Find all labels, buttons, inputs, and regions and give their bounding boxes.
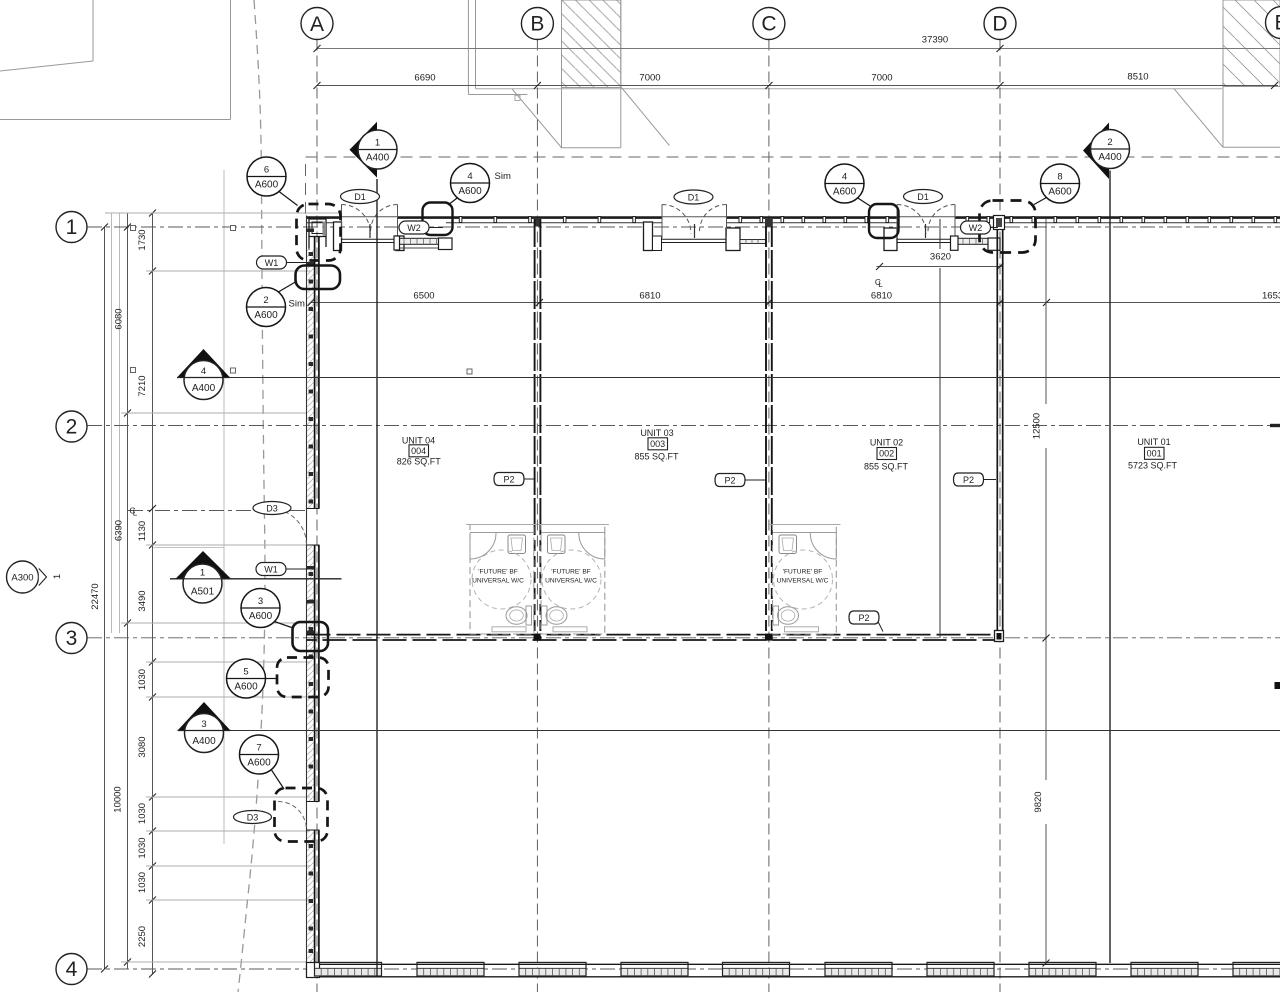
- svg-text:2: 2: [66, 416, 78, 439]
- WC room 2 door swing: [579, 533, 605, 559]
- svg-text:002: 002: [879, 449, 894, 459]
- grid bubble 2: [56, 411, 87, 442]
- svg-text:P2: P2: [724, 476, 735, 486]
- svg-text:A400: A400: [192, 383, 216, 394]
- grid bubble E clipped: [1266, 7, 1280, 39]
- grid line 2: [87, 425, 1280, 427]
- svg-text:1030: 1030: [137, 872, 148, 893]
- WC room 1 toilet: [506, 607, 527, 625]
- svg-text:A600: A600: [249, 611, 273, 622]
- window W2-2 sill: [951, 236, 1001, 250]
- svg-text:9820: 9820: [1033, 791, 1044, 812]
- property line dashed curve: [238, 0, 265, 992]
- callout 4/A600 Sim: [448, 164, 511, 206]
- svg-text:3490: 3490: [137, 590, 148, 611]
- NW corner column boxes: [309, 219, 326, 250]
- callout 4/A600: [825, 164, 871, 207]
- grid line 4: [87, 968, 1280, 970]
- svg-text:1: 1: [66, 216, 78, 239]
- svg-text:7: 7: [256, 743, 261, 754]
- svg-text:7000: 7000: [871, 73, 892, 84]
- wall B junction box: [534, 219, 541, 227]
- svg-text:6690: 6690: [414, 73, 435, 84]
- svg-text:D: D: [992, 13, 1007, 36]
- window W2-1 sill: [394, 236, 452, 250]
- svg-text:2250: 2250: [137, 926, 148, 947]
- detail boundary W2-1 solid: [423, 203, 453, 236]
- detail boundary 7/A600 dashed: [275, 788, 328, 842]
- south curtain wall panels: [315, 962, 1280, 976]
- svg-text:A600: A600: [254, 310, 278, 321]
- detail boundary D wall dashed: [980, 201, 1036, 253]
- door D1-2 swing: [662, 205, 727, 239]
- svg-text:4: 4: [66, 958, 78, 981]
- svg-text:3620: 3620: [930, 252, 951, 263]
- grid line C: [768, 40, 770, 992]
- section line 4/A400 horizontal: [230, 377, 1280, 379]
- WC room 1 grab bar: [492, 627, 526, 632]
- svg-text:7210: 7210: [137, 375, 148, 396]
- existing grey line west mid: [223, 170, 225, 844]
- west wall outer face: [306, 216, 308, 978]
- svg-text:16530: 16530: [1262, 291, 1280, 302]
- svg-text:E: E: [1274, 12, 1280, 35]
- WC room 3: [770, 525, 841, 635]
- partition tag P2-2: [715, 474, 765, 487]
- west wall window W1-2 mullions: [307, 566, 315, 634]
- svg-text:A600: A600: [247, 758, 271, 769]
- door D3 centreline: [128, 510, 308, 512]
- callout 5/A600: [227, 659, 278, 698]
- grid bubble B: [521, 8, 553, 40]
- elevation line 1/A501: [170, 578, 342, 580]
- section line 3/A400 horizontal: [230, 730, 1280, 732]
- svg-text:001: 001: [1147, 448, 1162, 458]
- svg-text:W1: W1: [264, 565, 278, 575]
- svg-text:A: A: [310, 13, 324, 36]
- dimension line 6690 7000 7000 8510: [317, 85, 1278, 87]
- svg-text:W2: W2: [407, 223, 421, 233]
- grid line 3: [87, 637, 1280, 639]
- WC room 2 turning circle: [542, 550, 601, 609]
- left dimension chain inner: [152, 213, 154, 974]
- svg-text:1130: 1130: [137, 521, 148, 541]
- svg-text:A600: A600: [1048, 187, 1072, 198]
- door D1-1 swing: [342, 205, 398, 239]
- dimension 12500 / 9820 vertical: [1045, 219, 1047, 404]
- door tag D1-3: [904, 190, 943, 204]
- callout 3/A600: [241, 589, 293, 629]
- extension lines left: [105, 213, 340, 962]
- svg-text:'FUTURE' BF: 'FUTURE' BF: [478, 569, 518, 576]
- svg-text:1: 1: [52, 574, 63, 579]
- south west corner block: [307, 963, 320, 978]
- section line 1/A400 vertical: [376, 179, 378, 977]
- WC room 2 toilet: [546, 607, 567, 625]
- WC room 2 sink: [548, 535, 566, 554]
- svg-text:UNIT 01: UNIT 01: [1137, 437, 1170, 447]
- WC room 1 outline: [466, 525, 537, 635]
- grid line B: [536, 40, 538, 992]
- svg-text:1030: 1030: [137, 669, 148, 690]
- WC room 1 sink: [508, 535, 526, 554]
- small grey ledge: [515, 96, 520, 101]
- grid bubble 4: [56, 954, 87, 985]
- hatched strip top-centre: [562, 0, 621, 88]
- svg-text:A400: A400: [1098, 152, 1122, 163]
- svg-text:D1: D1: [917, 192, 929, 202]
- svg-text:4: 4: [201, 366, 206, 377]
- grid line A: [316, 40, 318, 992]
- svg-text:8510: 8510: [1127, 72, 1148, 83]
- svg-text:6810: 6810: [871, 291, 892, 302]
- detail boundary NW dashed: [297, 204, 341, 261]
- callout 2/A600 Sim: [247, 281, 305, 327]
- svg-text:10000: 10000: [113, 786, 124, 812]
- top wall mullion ticks: [459, 217, 1276, 223]
- diagonal grey top-right: [1174, 89, 1223, 148]
- door D3-2 swing: [278, 802, 307, 831]
- detail boundary D1-3 jamb solid: [869, 204, 899, 238]
- svg-text:6080: 6080: [114, 308, 125, 329]
- west wall inner double line: [315, 237, 319, 964]
- svg-text:D1: D1: [354, 192, 366, 202]
- door D1-1 jambs and threshold: [334, 222, 405, 251]
- svg-text:1730: 1730: [137, 229, 148, 250]
- centreline symbol at 6810: [875, 277, 883, 289]
- svg-text:6810: 6810: [639, 291, 660, 302]
- door D3-1 swing: [270, 509, 307, 546]
- svg-text:5: 5: [243, 667, 248, 678]
- wall D end box: [995, 631, 1004, 642]
- existing building outline top-left horizontal: [0, 119, 231, 121]
- svg-text:A600: A600: [833, 187, 857, 198]
- svg-text:2: 2: [1107, 137, 1112, 148]
- svg-text:B: B: [530, 13, 544, 36]
- svg-text:3080: 3080: [137, 736, 148, 757]
- svg-text:Sim: Sim: [289, 299, 305, 310]
- svg-text:8: 8: [1057, 172, 1062, 183]
- door D1-3 swing: [897, 205, 955, 239]
- elevation marker A300: [7, 561, 64, 593]
- svg-text:6500: 6500: [413, 291, 434, 302]
- section marker 2/A400: [1083, 123, 1130, 180]
- section marker 1/A400: [350, 122, 398, 178]
- door tag D1-1: [341, 190, 380, 204]
- callout 8/A600: [1034, 164, 1080, 205]
- unit 03 label: [634, 428, 679, 462]
- existing grey double line west side: [111, 213, 113, 633]
- svg-text:L: L: [878, 280, 883, 289]
- west wall girt blocks: [309, 252, 313, 953]
- clipped tag right edge: [1275, 682, 1280, 689]
- svg-text:A600: A600: [234, 682, 258, 693]
- section line 2/A400 vertical: [1109, 171, 1111, 964]
- left dimension chain 22470: [104, 227, 106, 969]
- svg-text:C: C: [761, 13, 776, 36]
- grey line below dimension row: [476, 88, 1223, 90]
- section marker 3/A400: [178, 702, 231, 753]
- grid bubble 3: [56, 623, 87, 654]
- setback dashed line: [306, 157, 1280, 214]
- window tag W1-1: [257, 256, 308, 269]
- grid bubble D: [984, 8, 1016, 40]
- svg-text:003: 003: [650, 439, 665, 449]
- door tag D1-2: [674, 190, 713, 204]
- door tag D3-1: [253, 502, 291, 515]
- svg-text:4: 4: [467, 171, 472, 182]
- svg-text:A600: A600: [458, 186, 482, 197]
- detail boundary row3 junction solid: [293, 622, 329, 651]
- demising wall B: [535, 219, 541, 640]
- svg-text:3: 3: [258, 596, 263, 607]
- door tag D3-2: [234, 811, 272, 824]
- wall B end box: [534, 634, 541, 641]
- west wall hatch band: [307, 248, 313, 509]
- dimension 3620: [877, 266, 1003, 268]
- svg-text:1030: 1030: [137, 803, 148, 824]
- section marker 4/A400: [177, 349, 230, 400]
- partition tag P2-3: [954, 473, 997, 486]
- svg-text:826 SQ.FT: 826 SQ.FT: [397, 457, 442, 467]
- wall D post: [994, 216, 1005, 230]
- unit 04 label: [397, 435, 442, 466]
- existing building outline top-left diagonal: [0, 61, 93, 71]
- door D1-2 jambs and threshold: [644, 222, 766, 251]
- south curtain wall lines: [307, 964, 1280, 977]
- svg-text:'FUTURE' BF: 'FUTURE' BF: [551, 569, 591, 576]
- callout 7/A600: [240, 735, 285, 789]
- svg-text:6: 6: [264, 165, 269, 176]
- grid bubble A: [301, 8, 333, 40]
- door D1-3 jambs and threshold: [884, 228, 955, 251]
- svg-text:L: L: [133, 509, 138, 518]
- svg-text:P2: P2: [963, 475, 974, 485]
- svg-text:D3: D3: [266, 503, 278, 513]
- svg-text:5723 SQ.FT: 5723 SQ.FT: [1128, 461, 1178, 471]
- lease line vertical x940: [939, 219, 941, 249]
- svg-text:D3: D3: [247, 812, 259, 822]
- window tag W2-1: [399, 221, 443, 234]
- left dimension chain 6080 6390 10000: [127, 213, 129, 969]
- demising wall D: [997, 229, 1002, 639]
- centreline symbol west: [129, 506, 137, 518]
- existing canopy edge lines top-centre: [467, 0, 469, 95]
- svg-text:UNIVERSAL W/C: UNIVERSAL W/C: [472, 578, 524, 585]
- svg-text:A501: A501: [191, 587, 215, 598]
- wall C end box: [765, 634, 773, 641]
- grid line 1: [87, 226, 1280, 228]
- window tag W2-2: [961, 221, 999, 234]
- svg-text:A600: A600: [255, 180, 279, 191]
- svg-text:855 SQ.FT: 855 SQ.FT: [864, 461, 909, 471]
- WC room 2 grab bar: [553, 627, 587, 632]
- svg-text:UNIT 03: UNIT 03: [640, 428, 673, 438]
- svg-text:P2: P2: [858, 613, 869, 623]
- unit rear wall row 3: [307, 635, 998, 640]
- callout 6/A600: [247, 157, 298, 206]
- svg-text:D1: D1: [688, 192, 700, 202]
- svg-text:UNIT 04: UNIT 04: [402, 435, 435, 445]
- dimension row 6500 6810 6810 16530: [311, 302, 1280, 304]
- partition tag P2-4: [849, 611, 883, 632]
- svg-text:7000: 7000: [639, 73, 660, 84]
- small square markers: [131, 226, 473, 375]
- grid line D: [999, 40, 1001, 992]
- svg-text:1: 1: [375, 138, 380, 149]
- svg-text:2: 2: [263, 295, 268, 306]
- svg-text:12500: 12500: [1032, 413, 1043, 439]
- svg-text:4: 4: [842, 172, 847, 183]
- top wall outer heavy band: [307, 216, 1280, 219]
- svg-text:W1: W1: [265, 258, 279, 268]
- svg-text:3: 3: [201, 719, 206, 730]
- window tag W1-2: [256, 563, 308, 576]
- WC room 1 door swing: [470, 533, 496, 559]
- demising wall C: [766, 219, 772, 640]
- svg-text:855 SQ.FT: 855 SQ.FT: [634, 452, 679, 462]
- svg-text:A400: A400: [192, 736, 216, 747]
- svg-text:37390: 37390: [922, 35, 948, 46]
- svg-text:22470: 22470: [90, 583, 101, 609]
- svg-text:UNIT 02: UNIT 02: [870, 438, 903, 448]
- WC room 2 outline: [538, 525, 609, 635]
- svg-text:1030: 1030: [137, 837, 148, 858]
- grid bubble C: [753, 8, 785, 40]
- existing building outline top-left vertical: [92, 0, 94, 61]
- unit 02 label: [864, 438, 909, 472]
- svg-text:Sim: Sim: [495, 171, 511, 182]
- dimension line 37390: [317, 48, 1280, 50]
- top wall head line at door openings: [341, 216, 956, 218]
- elevation marker 1/A501: [176, 551, 232, 603]
- svg-text:A300: A300: [11, 573, 33, 584]
- partition tag P2-1: [494, 473, 534, 486]
- grid bubble 1: [56, 212, 87, 243]
- svg-text:UNIVERSAL W/C: UNIVERSAL W/C: [545, 578, 597, 585]
- top wall inner line: [307, 222, 1280, 224]
- existing building outline top-left vertical 2: [230, 0, 232, 120]
- detail boundary 5/A600 dashed: [277, 658, 329, 698]
- door D3-2 opening: [307, 802, 320, 831]
- detail boundary W1 head solid: [296, 266, 341, 290]
- svg-text:004: 004: [411, 446, 426, 456]
- canopy ramp outline: [512, 89, 621, 148]
- svg-text:W2: W2: [969, 223, 983, 233]
- door D3-1 opening: [307, 509, 320, 546]
- svg-text:1: 1: [200, 568, 205, 579]
- svg-text:A400: A400: [366, 153, 390, 164]
- svg-text:3: 3: [66, 627, 78, 650]
- svg-text:6390: 6390: [114, 520, 125, 541]
- svg-text:P2: P2: [503, 475, 514, 485]
- west wall window W1-1 mullions: [307, 229, 315, 266]
- WC room 1 turning circle: [472, 550, 531, 609]
- unit 01 label: [1128, 437, 1178, 471]
- hatched area top-right: [1223, 0, 1280, 87]
